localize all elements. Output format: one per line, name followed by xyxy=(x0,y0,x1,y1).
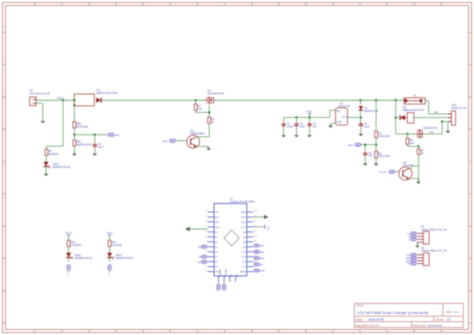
svg-text:VCC: VCC xyxy=(267,226,269,231)
svg-text:3: 3 xyxy=(424,261,425,263)
svg-text:M025-14-2-R: M025-14-2-R xyxy=(451,107,466,110)
svg-text:RXI: RXI xyxy=(215,217,219,219)
svg-text:12V 5A PWM Solar Charger (Lead: 12V 5A PWM Solar Charger (Lead Acid) xyxy=(357,310,429,315)
svg-text:D2: D2 xyxy=(215,232,219,234)
svg-text:4: 4 xyxy=(205,226,206,228)
svg-text:Sheet:: Sheet: xyxy=(436,318,445,322)
svg-text:D11: D11 xyxy=(242,262,247,264)
svg-text:AMS8870-80-W: AMS8870-80-W xyxy=(53,166,71,169)
svg-text:BLOCK13-5.0-2P: BLOCK13-5.0-2P xyxy=(30,92,50,96)
svg-text:1K(0603): 1K(0603) xyxy=(71,244,81,247)
svg-text:F1: F1 xyxy=(413,95,417,98)
svg-text:104: 104 xyxy=(368,155,373,158)
svg-text:1: 1 xyxy=(424,233,425,235)
svg-text:Arduino Pro Mini Blue: Arduino Pro Mini Blue xyxy=(230,199,256,203)
svg-text:Date:: Date: xyxy=(356,318,363,322)
svg-text:VCC: VCC xyxy=(65,231,72,235)
svg-text:D13: D13 xyxy=(242,252,247,254)
svg-text:1: 1 xyxy=(424,255,425,257)
svg-text:solv: solv xyxy=(260,246,265,248)
svg-text:sol: sol xyxy=(198,257,201,259)
svg-text:S8050(NPN): S8050(NPN) xyxy=(190,132,205,136)
svg-text:D7: D7 xyxy=(215,257,219,259)
svg-text:D8: D8 xyxy=(215,262,219,264)
svg-text:1K(0603): 1K(0603) xyxy=(112,244,122,247)
svg-text:22: 22 xyxy=(254,221,256,223)
svg-text:12: 12 xyxy=(204,265,206,267)
svg-text:2: 2 xyxy=(424,258,425,260)
svg-text:9: 9 xyxy=(205,250,206,252)
svg-text:pwm: pwm xyxy=(406,261,411,263)
svg-text:A4(SDA): A4(SDA) xyxy=(218,269,221,277)
svg-text:AMS8870-80-W: AMS8870-80-W xyxy=(115,257,133,260)
svg-text:TX0: TX0 xyxy=(215,212,220,214)
svg-text:10K: 10K xyxy=(410,142,415,145)
svg-text:A3: A3 xyxy=(243,231,246,234)
svg-text:GND: GND xyxy=(215,227,220,229)
svg-text:Q4 BAT(TP): Q4 BAT(TP) xyxy=(423,126,437,130)
svg-text:2018-04-08: 2018-04-08 xyxy=(368,318,384,322)
svg-text:D4: D4 xyxy=(215,242,219,244)
svg-text:D3: D3 xyxy=(215,237,219,239)
svg-text:EasyEDA V5.3.14: EasyEDA V5.3.14 xyxy=(356,323,379,327)
svg-text:bat: bat xyxy=(434,111,438,114)
svg-text:1/1: 1/1 xyxy=(447,318,452,322)
svg-text:5: 5 xyxy=(205,230,206,232)
svg-text:TL_ref: TL_ref xyxy=(379,171,387,174)
svg-text:100uF: 100uF xyxy=(287,125,295,128)
svg-text:VCC: VCC xyxy=(106,231,113,235)
svg-text:MBR16-45CT(TR): MBR16-45CT(TR) xyxy=(97,91,118,95)
svg-text:4: 4 xyxy=(424,242,425,244)
svg-text:7: 7 xyxy=(205,240,206,242)
svg-text:1K: 1K xyxy=(211,121,214,124)
svg-text:GND: GND xyxy=(337,122,342,124)
svg-text:D9: D9 xyxy=(215,267,219,269)
svg-text:lod: lod xyxy=(260,264,264,266)
svg-text:14: 14 xyxy=(254,260,256,262)
svg-text:20: 20 xyxy=(254,230,256,232)
svg-text:D5: D5 xyxy=(215,247,219,249)
svg-text:Header-Male-2.54_1x4: Header-Male-2.54_1x4 xyxy=(421,228,447,231)
svg-text:GERNIL(104): GERNIL(104) xyxy=(76,144,91,147)
svg-text:bat: bat xyxy=(198,246,202,249)
svg-text:10K(1206): 10K(1206) xyxy=(378,135,390,138)
svg-text:3: 3 xyxy=(205,221,206,223)
svg-text:A5(SCL): A5(SCL) xyxy=(224,269,227,277)
svg-text:A1: A1 xyxy=(243,241,246,244)
svg-text:10uF: 10uF xyxy=(300,125,306,128)
svg-text:5: 5 xyxy=(67,274,69,276)
svg-text:solv: solv xyxy=(115,134,120,137)
svg-text:AMS8870-80-W: AMS8870-80-W xyxy=(74,257,92,260)
svg-text:RST: RST xyxy=(215,222,220,224)
svg-text:RST: RST xyxy=(242,222,247,224)
svg-text:AREF: AREF xyxy=(240,271,246,274)
svg-text:TITLE:: TITLE: xyxy=(356,304,364,308)
svg-text:temp: temp xyxy=(260,270,266,273)
svg-text:VCC: VCC xyxy=(306,109,313,113)
svg-text:A2: A2 xyxy=(243,236,246,239)
svg-text:1K(0603): 1K(0603) xyxy=(48,153,58,156)
svg-text:D6: D6 xyxy=(215,252,219,254)
svg-text:MBR16-45CT(TR): MBR16-45CT(TR) xyxy=(403,108,424,112)
svg-text:19: 19 xyxy=(254,235,256,237)
svg-text:pwm: pwm xyxy=(163,140,168,143)
svg-text:6: 6 xyxy=(205,235,206,237)
svg-text:pwm: pwm xyxy=(348,144,353,147)
svg-text:24: 24 xyxy=(254,211,256,213)
svg-text:10K(1206): 10K(1206) xyxy=(76,125,88,128)
svg-text:10uF: 10uF xyxy=(364,125,370,128)
svg-text:Header-Male-2.54_1x4: Header-Male-2.54_1x4 xyxy=(421,250,447,253)
svg-text:2: 2 xyxy=(424,236,425,238)
svg-text:5: 5 xyxy=(108,274,110,276)
svg-text:LD1117-50: LD1117-50 xyxy=(338,105,350,108)
svg-text:SensorHindi: SensorHindi xyxy=(428,323,443,327)
svg-text:AO3401(PNP): AO3401(PNP) xyxy=(208,92,225,96)
svg-text:A0: A0 xyxy=(243,246,246,249)
svg-text:10uF: 10uF xyxy=(98,146,104,149)
svg-text:10K(1206): 10K(1206) xyxy=(378,155,390,158)
svg-text:D12: D12 xyxy=(242,257,247,259)
svg-text:batv: batv xyxy=(260,251,265,254)
svg-text:D10: D10 xyxy=(242,267,247,269)
svg-text:pwm: pwm xyxy=(260,258,265,260)
svg-text:104: 104 xyxy=(313,125,318,128)
svg-text:18: 18 xyxy=(254,240,256,242)
svg-text:GND: GND xyxy=(241,217,246,219)
svg-text:VCC: VCC xyxy=(241,227,246,229)
svg-text:13: 13 xyxy=(204,270,206,272)
svg-text:RAW: RAW xyxy=(241,211,247,214)
svg-text:3: 3 xyxy=(424,239,425,241)
svg-text:VIN: VIN xyxy=(337,111,341,113)
svg-text:Drawn By:: Drawn By: xyxy=(413,323,427,327)
svg-text:1K: 1K xyxy=(421,152,424,155)
svg-text:Lod: Lod xyxy=(429,131,434,134)
svg-text:10K: 10K xyxy=(198,108,203,111)
svg-text:4: 4 xyxy=(424,264,425,266)
svg-text:0.2: 0.2 xyxy=(455,310,460,314)
svg-text:2: 2 xyxy=(205,216,206,218)
svg-text:1: 1 xyxy=(205,211,206,213)
svg-text:REV:: REV: xyxy=(446,310,453,314)
